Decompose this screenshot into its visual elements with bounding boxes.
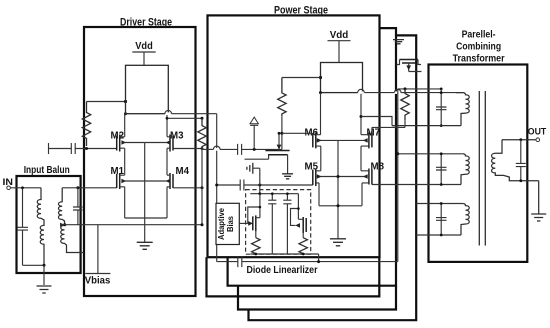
svg-text:Transformer: Transformer (453, 53, 505, 65)
svg-text:Diode Linearlizer: Diode Linearlizer (247, 264, 318, 276)
svg-text:Driver Stage: Driver Stage (120, 16, 172, 28)
svg-text:M2: M2 (111, 131, 125, 142)
svg-text:Vdd: Vdd (330, 29, 349, 41)
svg-text:Parellel-: Parellel- (462, 29, 496, 41)
svg-text:Combining: Combining (456, 41, 501, 53)
svg-text:Vbias: Vbias (85, 276, 111, 287)
svg-text:Input Balun: Input Balun (24, 164, 70, 176)
svg-text:Vdd: Vdd (135, 40, 153, 52)
svg-text:Power Stage: Power Stage (274, 4, 328, 16)
svg-text:Bias: Bias (225, 216, 235, 232)
svg-text:OUT: OUT (528, 127, 547, 138)
svg-text:M4: M4 (176, 166, 190, 177)
svg-text:M3: M3 (170, 131, 184, 142)
